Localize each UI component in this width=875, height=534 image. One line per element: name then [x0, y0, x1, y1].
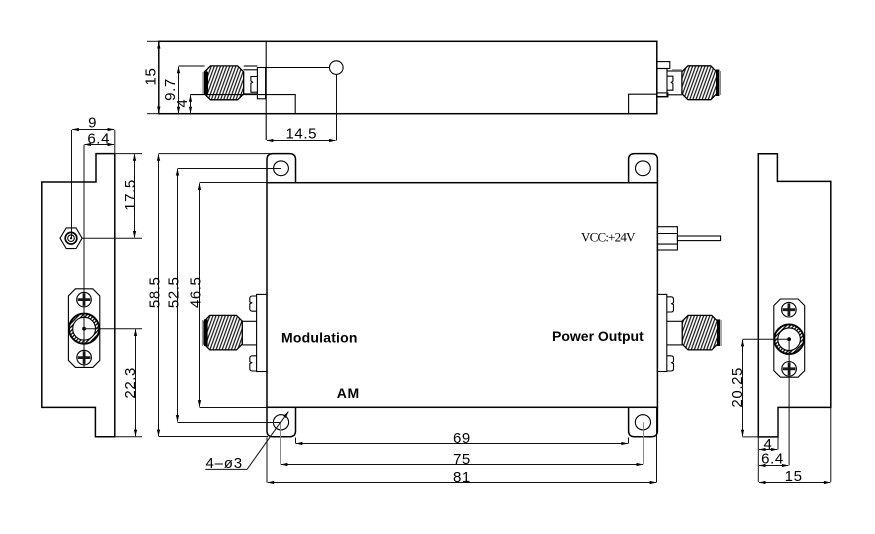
top view right connector flange	[657, 69, 667, 97]
front view left bottom screw head	[250, 356, 257, 371]
front view top-right ear hole	[636, 161, 651, 176]
svg-text:46.5: 46.5	[188, 276, 205, 308]
dimension 22.3	[135, 329, 137, 436]
front view top-left ear hole	[274, 161, 289, 176]
VCC feedthrough body	[657, 227, 677, 250]
top view right connector bottom step	[657, 93, 668, 97]
svg-text:Modulation: Modulation	[281, 329, 358, 345]
right view bottom screw	[782, 362, 797, 377]
front view bottom-left ear hole	[273, 415, 288, 430]
front view left knurl end cap	[204, 319, 208, 346]
svg-text:VCC:+24V: VCC:+24V	[581, 230, 636, 245]
front view left top screw head	[250, 296, 257, 311]
svg-text:20.25: 20.25	[729, 367, 746, 408]
svg-text:17.5: 17.5	[122, 179, 139, 211]
svg-text:52.5: 52.5	[165, 276, 182, 308]
dimension 75	[281, 464, 643, 466]
front view top-right ear	[629, 154, 658, 183]
front view right connector barrel	[667, 320, 682, 322]
front view right knurl end cap	[717, 319, 720, 346]
svg-text:Power Output: Power Output	[552, 328, 644, 344]
dimension 46.5	[199, 183, 201, 406]
dimension 20.25	[742, 340, 744, 436]
top view outline	[159, 41, 657, 113]
right view nut	[774, 324, 804, 354]
top view bottom-right notch	[629, 94, 657, 114]
right view top screw	[782, 302, 797, 317]
right view SMA flange	[774, 299, 805, 377]
left view SMA flange	[68, 289, 99, 368]
top view right connector barrel	[667, 70, 682, 72]
front view left connector flange	[257, 294, 267, 371]
front view right bottom screw head	[667, 356, 674, 371]
svg-text:AM: AM	[337, 385, 360, 401]
left view hex standoff	[60, 228, 82, 249]
dimension 58.5	[158, 154, 160, 436]
front view right knurled nut	[682, 315, 717, 350]
svg-text:69: 69	[453, 430, 471, 447]
left side view outline	[42, 154, 115, 437]
svg-text:81: 81	[453, 469, 471, 486]
svg-text:14.5: 14.5	[285, 126, 317, 143]
svg-text:15: 15	[785, 468, 803, 485]
svg-text:58.5: 58.5	[146, 276, 163, 308]
top view line flange top to circle	[257, 67, 329, 69]
front view top-left ear	[267, 154, 296, 183]
svg-text:75: 75	[453, 451, 471, 468]
front view left connector barrel	[242, 320, 256, 322]
front view bottom-right ear	[629, 407, 658, 436]
svg-text:15: 15	[143, 68, 160, 86]
top view left connector pin bracket	[251, 77, 258, 93]
dimension 6.4 right view	[759, 465, 788, 467]
front view left knurled nut	[204, 315, 242, 350]
svg-text:6.4: 6.4	[87, 130, 110, 147]
top view left connector barrel	[244, 69, 258, 71]
top view screw hole circle	[330, 61, 344, 75]
top view right knurl end cap	[716, 70, 719, 97]
front view right top screw head	[667, 297, 674, 312]
top view case left edge line	[265, 41, 267, 140]
dimension 15 right view	[759, 482, 830, 484]
front view bottom-right ear hole	[635, 415, 650, 430]
top view right knurled nut	[682, 66, 717, 100]
top view right connector pin bracket	[667, 76, 673, 90]
dimension 4 right view	[759, 449, 777, 451]
svg-text:9: 9	[88, 114, 97, 131]
left view bottom screw	[77, 350, 92, 365]
dimension 52.5	[177, 169, 179, 422]
dimension 81	[268, 482, 656, 484]
leader 4-o3	[205, 468, 247, 470]
top view bottom-left step	[190, 95, 295, 114]
dimension 14.5	[336, 74, 338, 140]
front view right connector flange	[657, 294, 666, 371]
top view right connector step	[657, 62, 670, 69]
top view connector top feature line	[179, 65, 205, 67]
dimension 9 left view	[72, 129, 114, 131]
left view nut	[69, 314, 99, 344]
top view left knurl end cap	[204, 72, 208, 95]
svg-text:22.3: 22.3	[122, 367, 139, 399]
svg-text:9.7: 9.7	[162, 78, 179, 101]
right side view outline	[758, 154, 831, 437]
dimension 69	[296, 443, 628, 445]
dimension 17.5	[134, 154, 136, 237]
top view left knurled nut	[204, 66, 243, 100]
svg-text:4–ø3: 4–ø3	[206, 455, 243, 472]
dimension 15	[158, 42, 160, 113]
dimension 9.7	[178, 67, 180, 114]
dimension 6.4 left view	[85, 144, 115, 146]
svg-text:6.4: 6.4	[761, 451, 784, 468]
top view line from flange to hole	[244, 65, 258, 67]
left view top screw	[77, 292, 92, 307]
front view bottom-left ear	[267, 407, 296, 436]
VCC wire	[677, 236, 720, 241]
front view case outline	[267, 183, 657, 408]
dimension 4 top view	[190, 95, 192, 113]
svg-text:4: 4	[174, 99, 191, 108]
top view left connector flange	[257, 68, 265, 99]
